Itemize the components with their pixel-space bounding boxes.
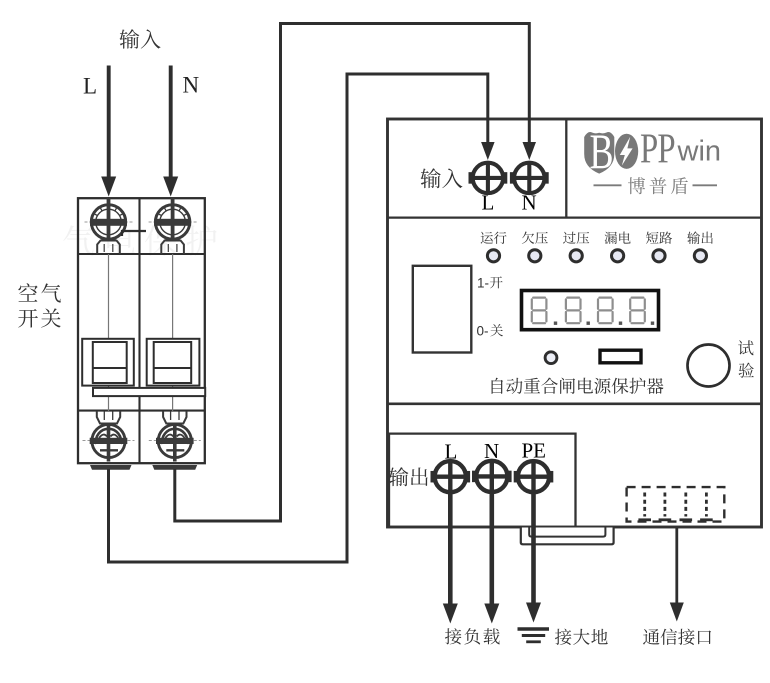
LED indicator 欠压 — [529, 250, 541, 262]
Boppwin logo O with lightning — [615, 134, 638, 169]
wire: L input drop into breaker — [101, 66, 116, 197]
divider under input row — [388, 216, 762, 218]
LED indicator 输出 — [694, 250, 706, 262]
LED indicator 短路 — [653, 250, 665, 262]
svg-text:L: L — [83, 74, 97, 99]
earth ground symbol — [518, 629, 550, 642]
label 1-开 — [477, 276, 503, 291]
label 接负载 — [445, 628, 500, 644]
wire: comm port down — [670, 528, 684, 622]
breaker top terminal N (pole 2) — [149, 198, 197, 254]
output terminal L — [431, 461, 471, 492]
breaker bottom terminal pole 2 — [149, 411, 201, 462]
output terminal N — [472, 461, 512, 492]
wire: L from breaker pole1 up over to device L input — [109, 74, 495, 562]
label 试验 — [738, 340, 754, 378]
Boppwin logo PPwin — [640, 126, 721, 173]
device input terminal N — [510, 163, 549, 193]
logo cell divider — [565, 119, 567, 218]
svg-text:L: L — [482, 191, 495, 215]
indicator small circle — [545, 352, 557, 364]
wire: N from breaker pole2 up over to device N input — [175, 24, 536, 522]
watermark (faint) — [63, 225, 216, 256]
label 通信接口 — [643, 629, 711, 645]
LED label 过压 — [563, 232, 589, 244]
output terminal PE — [514, 461, 554, 492]
logo chinese 博普盾 — [594, 177, 718, 194]
label 接大地 — [555, 629, 608, 645]
svg-text:L: L — [445, 440, 458, 464]
LED indicator 运行 — [487, 250, 499, 262]
air switch 空气开关 label — [18, 283, 61, 327]
protector device box — [388, 119, 762, 527]
DIN rail tab — [521, 528, 614, 545]
svg-text:B: B — [590, 124, 614, 179]
breaker top terminal L (pole 1) — [85, 198, 133, 254]
svg-text:N: N — [484, 439, 499, 463]
breaker handle pole 2 — [147, 339, 200, 386]
svg-text:win: win — [677, 136, 722, 168]
label 0-关 — [477, 324, 504, 339]
7-segment display frame — [522, 291, 659, 330]
jumper line between poles — [122, 231, 146, 236]
svg-text:N: N — [522, 191, 537, 215]
reset button rectangle — [600, 350, 641, 363]
node: mains input label 输入 — [120, 29, 161, 49]
LED label 输出 — [687, 231, 713, 244]
divider above output row — [388, 402, 762, 405]
device input terminal L — [469, 163, 508, 193]
breaker feet — [90, 465, 197, 470]
wire: output L to load — [443, 493, 458, 624]
breaker internal conductor lines — [109, 254, 173, 411]
breaker bottom terminal pole 1 — [83, 411, 135, 462]
svg-text:N: N — [183, 73, 200, 98]
handle tie bar — [93, 388, 205, 396]
LED label 漏电 — [605, 232, 631, 244]
svg-text:1-: 1- — [477, 276, 489, 291]
LED label 欠压 — [522, 232, 548, 244]
breaker QF outline — [78, 198, 205, 463]
device name 自动重合闸电源保护器 — [492, 378, 664, 394]
wire: output PE to earth — [526, 493, 541, 623]
wire: N input drop into breaker — [163, 66, 178, 197]
svg-text:0-: 0- — [477, 324, 489, 339]
Boppwin logo shield B — [584, 124, 614, 179]
test button circle — [688, 345, 730, 387]
communication port dashed box — [627, 487, 725, 521]
LED indicator 过压 — [570, 250, 582, 262]
wire: output N to load — [484, 492, 499, 623]
LED label 运行 — [481, 232, 507, 244]
device output label 输出 — [389, 467, 428, 486]
LED label 短路 — [646, 232, 672, 244]
breaker handle pole 1 — [82, 339, 134, 386]
output terminals inner box — [389, 434, 576, 527]
svg-text:PP: PP — [640, 126, 675, 173]
comm pins — [638, 493, 712, 520]
device input label 输入 — [421, 168, 463, 188]
switch window — [413, 266, 472, 353]
svg-text:PE: PE — [522, 439, 547, 463]
LED indicator 漏电 — [612, 250, 624, 262]
display digits 8.8.8.8 — [532, 298, 654, 325]
